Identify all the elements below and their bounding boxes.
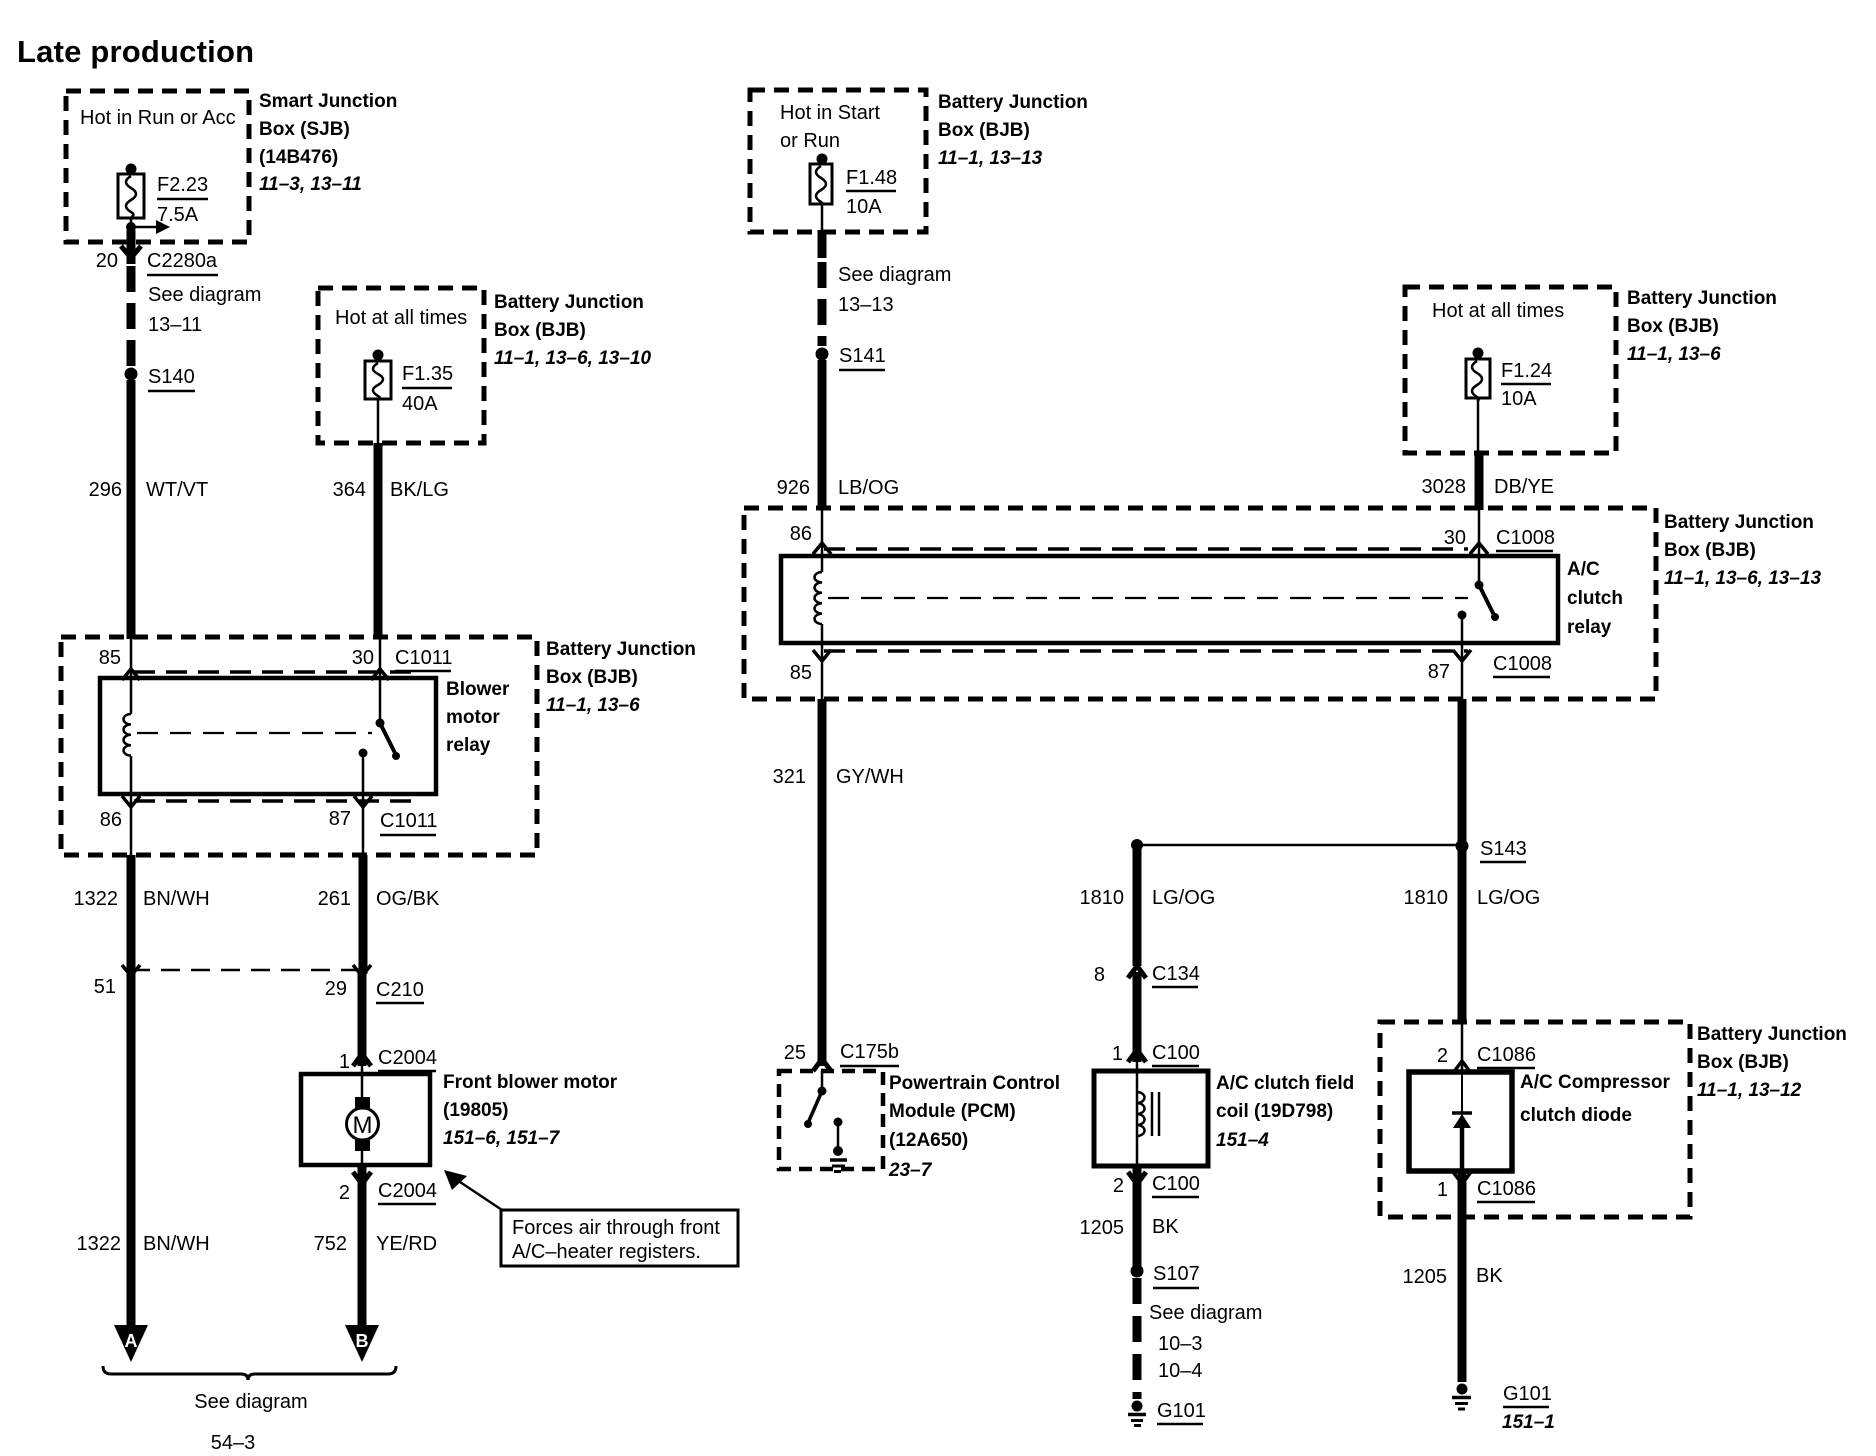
wire 926 LB/OG [777,360,900,510]
svg-text:(14B476): (14B476) [259,147,338,168]
svg-text:C1011: C1011 [380,810,437,832]
svg-text:BN/WH: BN/WH [143,888,210,910]
pin 87 A/C relay, connector C1008 [1428,643,1552,699]
svg-text:relay: relay [1567,617,1612,638]
svg-text:Forces air through front: Forces air through front [512,1217,720,1239]
svg-text:Hot at all times: Hot at all times [1432,300,1564,322]
box A/C Compressor clutch diode [1409,1072,1671,1171]
svg-text:F1.24: F1.24 [1501,360,1552,382]
node B (off-page arrow) [345,1325,379,1362]
pin 86 A/C relay [790,510,831,556]
svg-text:B: B [356,1331,369,1351]
svg-text:Battery Junction: Battery Junction [1627,288,1777,309]
svg-text:Box (SJB): Box (SJB) [259,119,350,140]
svg-text:1322: 1322 [77,1233,122,1255]
connector C2280a pin 20 [96,250,218,275]
svg-text:Hot in Run or Acc: Hot in Run or Acc [80,107,236,129]
label Powertrain Control Module (PCM) (12A650) 23-7 [888,1073,1060,1181]
connector C210 [376,979,424,1003]
svg-text:86: 86 [790,523,812,545]
connector C1086 pin 2 [1437,1024,1536,1073]
svg-text:motor: motor [446,707,500,728]
svg-text:87: 87 [1428,661,1450,683]
svg-text:11–1, 13–13: 11–1, 13–13 [938,148,1043,169]
svg-text:Box (BJB): Box (BJB) [938,120,1030,141]
svg-text:or Run: or Run [780,130,840,152]
svg-text:51: 51 [94,976,116,998]
wire pin 20 out of SJB [121,230,141,264]
connector C1086 pin 1 [1437,1172,1536,1202]
node A (off-page arrow) [114,1325,148,1362]
connector C2004 pin 1 [339,1047,437,1073]
label Front blower motor (19805) 151-6, 151-7 [443,1072,618,1149]
svg-text:261: 261 [318,888,351,910]
svg-text:Battery Junction: Battery Junction [1697,1024,1847,1045]
wire 321 GY/WH [773,699,904,1066]
svg-text:85: 85 [790,662,812,684]
svg-text:S141: S141 [839,345,886,367]
box Battery Junction Box (BJB) around A/C clutch relay [744,508,1656,699]
svg-text:C2004: C2004 [378,1047,437,1069]
title "Late production" [17,34,254,69]
svg-text:G101: G101 [1157,1400,1206,1422]
svg-text:Front blower motor: Front blower motor [443,1072,618,1093]
svg-text:WT/VT: WT/VT [146,479,208,501]
label Battery Junction Box (BJB) 11-1, 13-6, 13-10 [494,292,652,369]
svg-text:85: 85 [99,647,121,669]
svg-text:Box (BJB): Box (BJB) [1627,316,1719,337]
svg-text:87: 87 [329,808,351,830]
svg-text:1810: 1810 [1080,887,1125,909]
svg-text:Battery Junction: Battery Junction [494,292,644,313]
wire dashed (see diagram 13-11) [131,266,261,366]
svg-text:See diagram: See diagram [1149,1302,1262,1324]
svg-text:A: A [125,1331,138,1351]
svg-text:C1008: C1008 [1496,527,1555,549]
node S141 [816,345,886,370]
node S107 [1131,1263,1200,1288]
wire dashed below F1.48 (see diagram 13-13) [822,204,951,346]
fuse F1.35 40A [365,350,453,416]
svg-text:10A: 10A [1501,388,1537,410]
svg-text:296: 296 [89,479,122,501]
wire dashed coil-to-contact link (A/C relay) [828,597,1468,599]
svg-text:364: 364 [333,479,366,501]
svg-text:S107: S107 [1153,1263,1200,1285]
box A/C clutch field coil [1094,1071,1208,1166]
svg-text:2: 2 [339,1182,350,1204]
label Battery Junction Box (BJB) 11-1, 13-12 [1697,1024,1847,1101]
svg-text:C1008: C1008 [1493,653,1552,675]
svg-text:20: 20 [96,250,118,272]
svg-text:See diagram: See diagram [838,264,951,286]
wire dashed junction link 51/29 [94,965,371,1000]
svg-text:Late production: Late production [17,34,254,69]
svg-text:13–11: 13–11 [148,314,202,336]
pin 85 blower relay [99,639,140,680]
svg-text:C1086: C1086 [1477,1178,1536,1200]
svg-text:30: 30 [1444,527,1466,549]
svg-text:1322: 1322 [74,888,119,910]
wire 261 OG/BK [318,855,440,974]
svg-text:M: M [353,1112,373,1139]
box Smart Junction Box (SJB) "Hot in Run or Acc" [66,91,249,242]
svg-text:F1.35: F1.35 [402,363,453,385]
svg-text:13–13: 13–13 [838,294,894,316]
svg-text:321: 321 [773,766,806,788]
wire to C100 pin 1 [1112,972,1200,1066]
motor front blower motor (box) [301,1074,430,1165]
svg-text:1205: 1205 [1080,1217,1125,1239]
svg-text:11–1, 13–6, 13–13: 11–1, 13–6, 13–13 [1664,568,1822,589]
svg-text:10A: 10A [846,196,882,218]
svg-text:11–1, 13–12: 11–1, 13–12 [1697,1080,1802,1101]
svg-text:S143: S143 [1480,838,1527,860]
svg-text:10–4: 10–4 [1158,1360,1203,1382]
svg-text:C100: C100 [1152,1042,1200,1064]
svg-text:LG/OG: LG/OG [1152,887,1215,909]
svg-text:YE/RD: YE/RD [376,1233,437,1255]
svg-text:C210: C210 [376,979,424,1001]
svg-text:25: 25 [784,1042,806,1064]
relay switch contacts (blower motor relay) [359,678,401,794]
wire 1322 BN/WH (upper) [74,855,210,974]
box Battery Junction Box (BJB) "Hot at all times" F1.24 [1405,287,1616,453]
label A/C clutch field coil (19D798) 151-4 [1216,1073,1354,1151]
svg-text:Hot in Start: Hot in Start [780,102,880,124]
ground G101 (right) 151-1 [1452,1383,1555,1433]
node S140 [125,366,196,391]
pin 30 A/C relay, connector C1008 [1444,510,1555,556]
wire 1205 BK (field coil ground path) [1080,1186,1180,1266]
relay coil (A/C clutch relay) [815,556,823,643]
svg-text:1: 1 [339,1051,350,1073]
box Powertrain Control Module (PCM) [779,1071,883,1169]
wire dashed coil-to-contact link [137,732,372,734]
svg-text:11–3, 13–11: 11–3, 13–11 [259,174,362,195]
wire 1810 LG/OG (field coil branch) [1080,845,1216,966]
brace see diagram 54-3 [103,1366,396,1454]
svg-text:1: 1 [1112,1043,1123,1065]
label Smart Junction Box (SJB) (14B476) 11-3, 13-11 [259,91,397,195]
svg-text:clutch diode: clutch diode [1520,1105,1632,1126]
svg-text:Powertrain Control: Powertrain Control [889,1073,1060,1094]
wire 261 down to C2004 [353,970,371,1066]
svg-text:(19805): (19805) [443,1100,509,1121]
connector C2004 pin 2 [339,1165,437,1204]
svg-text:54–3: 54–3 [211,1432,256,1454]
pin 86 blower relay [100,794,140,855]
label Battery Junction Box (BJB) 11-1, 13-13 [938,92,1088,169]
wire 364 BK/LG [333,399,449,639]
svg-text:1810: 1810 [1404,887,1449,909]
svg-text:2: 2 [1113,1175,1124,1197]
svg-text:See diagram: See diagram [148,284,261,306]
box Battery Junction Box (BJB) around clutch diode [1380,1022,1690,1217]
box Battery Junction Box (BJB) "Hot in Start or Run" [750,90,926,232]
svg-text:Battery Junction: Battery Junction [938,92,1088,113]
svg-text:clutch: clutch [1567,588,1623,609]
svg-text:relay: relay [446,735,491,756]
diode symbol [1452,1072,1472,1171]
svg-text:A/C Compressor: A/C Compressor [1520,1072,1671,1093]
svg-text:C175b: C175b [840,1041,899,1063]
svg-text:BK: BK [1476,1265,1503,1287]
svg-text:S140: S140 [148,366,195,388]
svg-text:F2.23: F2.23 [157,174,208,196]
pin 85 A/C relay [790,643,831,699]
svg-text:A/C: A/C [1567,559,1600,580]
wire 1322 BN/WH to A [77,970,210,1327]
svg-text:23–7: 23–7 [888,1160,933,1181]
wire 296 WT/VT [89,380,209,639]
svg-text:151–6, 151–7: 151–6, 151–7 [443,1128,561,1149]
svg-text:LB/OG: LB/OG [838,477,899,499]
svg-text:C100: C100 [1152,1173,1200,1195]
svg-text:11–1, 13–6: 11–1, 13–6 [546,695,640,716]
label Battery Junction Box (BJB) 11-1, 13-6 [546,639,696,716]
svg-text:Battery Junction: Battery Junction [546,639,696,660]
switch inside PCM [804,1071,827,1128]
svg-text:See diagram: See diagram [194,1391,307,1413]
svg-text:Box (BJB): Box (BJB) [1697,1052,1789,1073]
svg-text:3028: 3028 [1422,476,1467,498]
svg-text:Box (BJB): Box (BJB) [494,320,586,341]
ground G101 (left) [1128,1400,1206,1426]
pin 30 blower relay, connector C1011 [352,639,453,680]
label Battery Junction Box (BJB) 11-1, 13-6 [1627,288,1777,365]
svg-text:Hot at all times: Hot at all times [335,307,467,329]
fuse F1.24 10A [1466,348,1552,411]
svg-text:8: 8 [1094,964,1105,986]
svg-text:1205: 1205 [1403,1266,1448,1288]
svg-text:10–3: 10–3 [1158,1333,1203,1355]
svg-text:86: 86 [100,809,122,831]
svg-text:BK: BK [1152,1216,1179,1238]
svg-text:A/C–heater registers.: A/C–heater registers. [512,1241,701,1263]
svg-text:752: 752 [314,1233,347,1255]
svg-text:F1.48: F1.48 [846,167,897,189]
box Battery Junction Box (BJB) "Hot at all times" F1.35 [318,288,484,443]
svg-text:C1086: C1086 [1477,1044,1536,1066]
pin 87 blower relay, connector C1011 [329,794,438,855]
svg-text:151–1: 151–1 [1502,1412,1555,1433]
node S143 [1456,838,1527,862]
svg-text:GY/WH: GY/WH [836,766,904,788]
svg-text:Smart Junction: Smart Junction [259,91,397,112]
svg-text:Battery Junction: Battery Junction [1664,512,1814,533]
relay blower motor relay (box) [100,678,510,794]
box Battery Junction Box (BJB) around blower motor relay [61,637,537,855]
wire dashed (see diagram 10-3 10-4) [1137,1278,1262,1399]
relay coil (blower motor relay) [123,678,131,794]
connector C175b pin 25 [784,1041,899,1071]
fuse F2.23 7.5A [118,164,208,227]
relay A/C clutch relay (box) [781,556,1623,643]
wire 752 YE/RD to B [314,1186,438,1327]
fuse F1.48 10A [810,154,897,219]
svg-text:BK/LG: BK/LG [390,479,449,501]
svg-text:C2004: C2004 [378,1180,437,1202]
svg-text:40A: 40A [402,393,438,415]
svg-text:A/C clutch field: A/C clutch field [1216,1073,1354,1094]
svg-text:C1011: C1011 [395,647,452,669]
svg-text:2: 2 [1437,1045,1448,1067]
svg-text:(12A650): (12A650) [889,1130,968,1151]
svg-text:G101: G101 [1503,1383,1552,1405]
svg-text:1: 1 [1437,1179,1448,1201]
field coil symbol with core [1137,1062,1159,1166]
svg-text:DB/YE: DB/YE [1494,476,1554,498]
wire 1810 LG/OG to S143 [1404,699,1541,1024]
relay switch contacts (A/C clutch relay) [1458,556,1500,643]
svg-text:926: 926 [777,477,810,499]
svg-text:Box (BJB): Box (BJB) [546,667,638,688]
svg-text:Module (PCM): Module (PCM) [889,1101,1016,1122]
node junction below fuse F2.23 with branch arrow [126,218,170,234]
svg-text:C2280a: C2280a [147,250,218,272]
wire 1205 BK (diode ground path) [1403,1171,1504,1382]
svg-text:Blower: Blower [446,679,510,700]
svg-text:OG/BK: OG/BK [376,888,440,910]
svg-text:C134: C134 [1152,963,1200,985]
wire 3028 DB/YE [1422,398,1555,510]
label Battery Junction Box (BJB) 11-1, 13-6, 13-13 [1664,512,1822,589]
connector C134 pin 8 [1094,963,1200,987]
svg-text:Box (BJB): Box (BJB) [1664,540,1756,561]
svg-text:11–1, 13–6, 13–10: 11–1, 13–6, 13–10 [494,348,652,369]
ground (PCM internal) [830,1118,847,1172]
svg-text:151–4: 151–4 [1216,1130,1269,1151]
callout "Forces air through front A/C-heater registers." [444,1170,738,1266]
svg-text:7.5A: 7.5A [157,204,199,226]
svg-text:LG/OG: LG/OG [1477,887,1540,909]
svg-text:coil (19D798): coil (19D798) [1216,1101,1333,1122]
node branch junction to S143 [1131,839,1458,851]
svg-text:30: 30 [352,647,374,669]
motor M symbol [347,1066,379,1165]
svg-text:BN/WH: BN/WH [143,1233,210,1255]
connector C100 pin 2 [1113,1166,1200,1197]
svg-text:11–1, 13–6: 11–1, 13–6 [1627,344,1721,365]
svg-text:29: 29 [325,978,347,1000]
